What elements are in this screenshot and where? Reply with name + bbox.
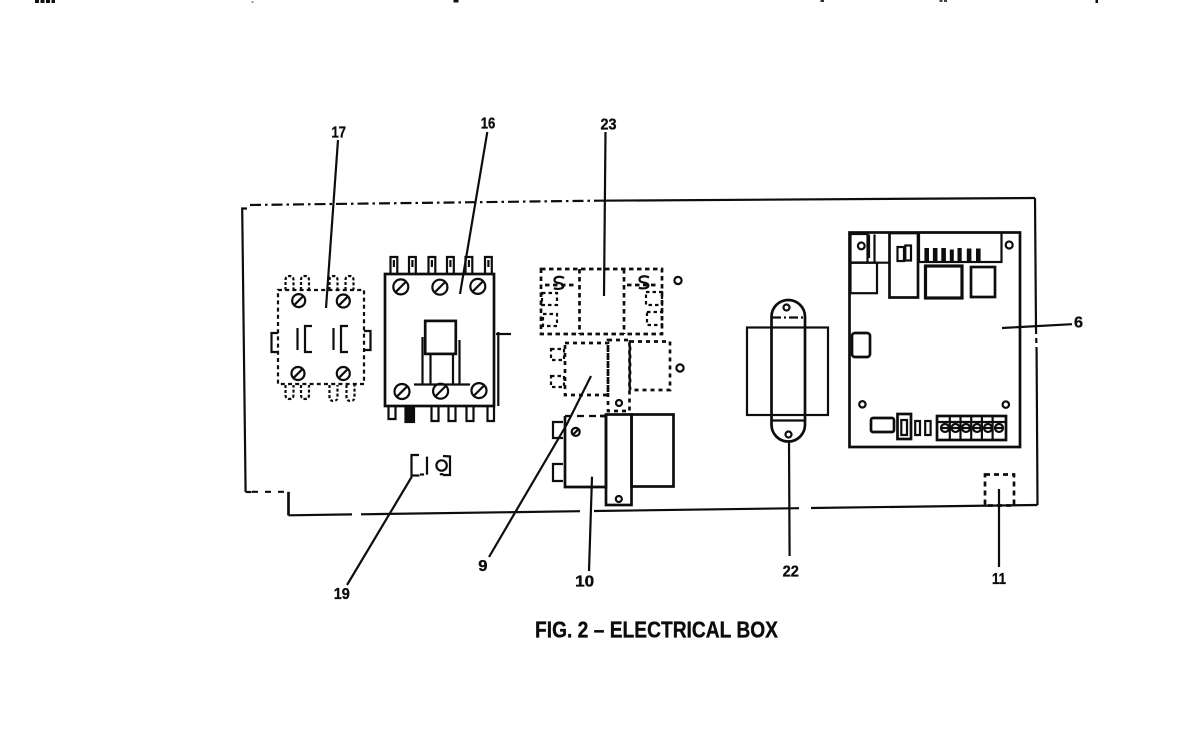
- relay K9 mounting hole: [676, 364, 683, 371]
- electrical box outline: top edge solid: [597, 198, 1035, 201]
- contactor C16 top terminals: [391, 257, 492, 273]
- contactor C16 bottom terminals: [389, 407, 495, 422]
- transformer T22 bottom hole: [786, 432, 792, 438]
- relay K23 mounting hole: [674, 277, 681, 284]
- relay K9 left tabs: [551, 349, 564, 387]
- svg-text:22: 22: [783, 564, 799, 581]
- contactor C17 side ticks: [272, 331, 371, 352]
- contactor C17 dashed body: [278, 290, 364, 384]
- control board U6 top strip: [919, 233, 1002, 263]
- svg-text:11: 11: [992, 571, 1006, 588]
- contactor C16 center coil cover: [425, 321, 456, 354]
- control board U6 pin row: [924, 248, 980, 262]
- contactor C17 bottom terminals: [286, 385, 355, 401]
- contactor C16 top screws: [393, 279, 485, 295]
- contactor C16 body: [385, 274, 494, 406]
- svg-text:17: 17: [332, 124, 347, 141]
- control board U6 terminal block: [937, 416, 1006, 440]
- transformer T22 bobbin capsule: [772, 300, 806, 442]
- relay K23 marking right: [639, 276, 649, 288]
- transformer T22 core: [747, 328, 828, 416]
- relay K9 left block: [565, 343, 608, 395]
- svg-text:6: 6: [1074, 314, 1083, 331]
- relay K10 strip hole: [616, 496, 622, 502]
- relay K10 left block: [565, 416, 606, 487]
- contactor C16 bottom screws: [395, 383, 487, 399]
- plug 11 dashed square: [985, 475, 1014, 506]
- relay K10 left tabs: [553, 422, 563, 481]
- electrical box outline: bottom edge: [289, 505, 1038, 515]
- leader line 9: [489, 376, 591, 557]
- control board U6 connector block: [890, 233, 919, 298]
- control board U6 bottom relay: [871, 418, 894, 432]
- electrical box outline: right edge: [1035, 198, 1038, 505]
- relay K23 right tabs: [646, 292, 662, 325]
- control board U6 top-right hole: [1006, 242, 1013, 249]
- leader line 23: [604, 132, 606, 296]
- control board U6 top-left hole plate: [851, 234, 868, 263]
- leader line 19: [347, 477, 412, 586]
- contactor C17 screw bottom-right: [337, 367, 350, 380]
- relay K9 strip hole: [616, 400, 622, 406]
- control board U6 bottom-left hole: [859, 401, 865, 407]
- control board U6 left tab: [852, 333, 870, 357]
- contactor C16 side flange: [496, 332, 511, 406]
- leader line 11: [998, 489, 1000, 567]
- relay K23 left tabs: [542, 293, 557, 326]
- relay K9 middle strip: [608, 340, 630, 411]
- relay K23 marking left: [554, 277, 564, 289]
- control board U6 left dividers: [851, 235, 889, 263]
- leader line 17: [326, 140, 338, 308]
- grommet 19 symbol: [412, 455, 451, 476]
- relay K9 right block: [630, 342, 670, 391]
- svg-text:10: 10: [575, 574, 594, 591]
- scan specks top edge: [35, 0, 1098, 3]
- contactor C17 top terminals: [286, 276, 354, 290]
- contactor C16 internal lines: [414, 337, 470, 385]
- control board U6 middle square: [926, 266, 963, 298]
- contactor C17 screw bottom-left: [292, 367, 305, 380]
- svg-text:9: 9: [478, 558, 488, 575]
- transformer T22 bottom line: [772, 419, 805, 421]
- relay K10 middle strip: [606, 415, 632, 506]
- contactor C17 screw top-right: [337, 295, 350, 308]
- electrical box outline: left edge: [242, 209, 251, 493]
- control board U6 outline: [850, 233, 1021, 448]
- svg-text:19: 19: [334, 586, 350, 603]
- relay K10 right block: [632, 415, 674, 487]
- relay K23 dashed body: [541, 269, 662, 334]
- leader line 16: [460, 132, 487, 294]
- relay K10 screw: [572, 428, 580, 436]
- contactor C17 contact symbols: [298, 326, 349, 352]
- control board U6 right square: [971, 267, 995, 297]
- leader line 6: [1002, 324, 1072, 328]
- electrical box outline: bottom-left step: [252, 492, 289, 516]
- control board U6 bottom-right hole: [1003, 401, 1009, 407]
- control board U6 terminal screws: [941, 424, 1003, 432]
- svg-text:23: 23: [601, 117, 617, 134]
- control board U6 fuse holder: [898, 414, 912, 439]
- contactor C17 screw top-left: [292, 294, 305, 307]
- transformer T22 top hole: [784, 305, 790, 311]
- svg-text:16: 16: [481, 116, 496, 133]
- transformer T22 top line: [772, 316, 805, 318]
- control board U6 left lower section: [851, 263, 878, 294]
- leader line 10: [589, 477, 592, 571]
- svg-text:FIG. 2 – ELECTRICAL BOX: FIG. 2 – ELECTRICAL BOX: [535, 617, 778, 643]
- electrical box outline: top edge dash-dot: [250, 201, 597, 205]
- leader line 22: [788, 442, 791, 557]
- control board U6 small caps: [915, 421, 930, 435]
